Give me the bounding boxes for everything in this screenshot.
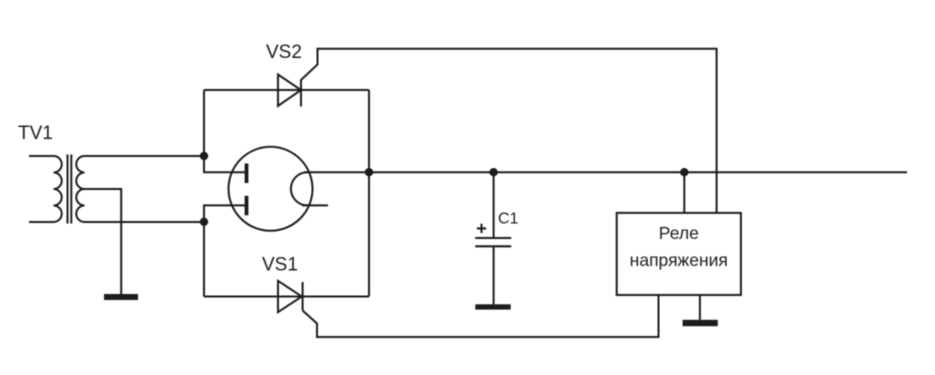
capacitor C1 top lead (493, 172, 495, 238)
svg-text:VS2: VS2 (266, 42, 302, 63)
wire VS1 gate to relay bottom (303, 295, 659, 337)
thyristor VS2 triangle (278, 75, 301, 107)
wire right vertical of loop (368, 90, 370, 297)
tube top anode bar (245, 164, 249, 184)
wire secondary top terminal to node A (85, 155, 205, 157)
ground TV1 center tap (104, 294, 138, 300)
thyristor VS1 triangle (278, 281, 302, 312)
junction dot relay / main wire (680, 168, 688, 176)
thyristor VS1 cathode bar (302, 282, 304, 311)
wire VS2 gate to relay top (301, 49, 717, 213)
node A junction dot (200, 152, 208, 160)
relay box (617, 213, 741, 295)
capacitor C1 plates (475, 238, 511, 246)
tube bottom anode bar (245, 196, 249, 216)
transformer TV1 primary winding (54, 156, 62, 222)
transformer TV1 primary top terminal wire (29, 155, 54, 157)
svg-text:напряжения: напряжения (630, 250, 728, 270)
wire center tap to ground (85, 189, 122, 294)
junction dot C1 / main wire (489, 168, 497, 176)
wire node A down to top anode (204, 90, 245, 172)
svg-text:C1: C1 (498, 210, 519, 227)
svg-text:Реле: Реле (659, 223, 699, 243)
capacitor C1 bottom lead (493, 247, 495, 304)
wire bottom branch with VS1 (204, 296, 369, 298)
capacitor C1 plus sign (477, 224, 486, 233)
svg-text:TV1: TV1 (18, 123, 53, 144)
tube cathode lower stub (302, 204, 328, 206)
thyristor VS2 cathode bar (300, 80, 302, 107)
tube envelope circle (229, 147, 313, 231)
ground C1 (475, 304, 510, 309)
wire top branch with VS2 (204, 89, 369, 91)
junction dot loop-right / main wire (365, 168, 373, 176)
transformer TV1 secondary winding (76, 156, 84, 222)
wire node B up to bottom anode (204, 205, 245, 296)
transformer TV1 core (68, 155, 72, 224)
transformer TV1 primary bottom terminal wire (29, 221, 54, 223)
ground relay (683, 320, 718, 326)
wire secondary bottom terminal to node B (85, 221, 205, 223)
wire relay ground stem (699, 295, 701, 320)
tube cathode arc (291, 172, 308, 205)
svg-text:VS1: VS1 (262, 255, 298, 276)
main output wire (304, 171, 907, 173)
wire relay top lead (683, 172, 685, 213)
node B junction dot (200, 218, 208, 226)
